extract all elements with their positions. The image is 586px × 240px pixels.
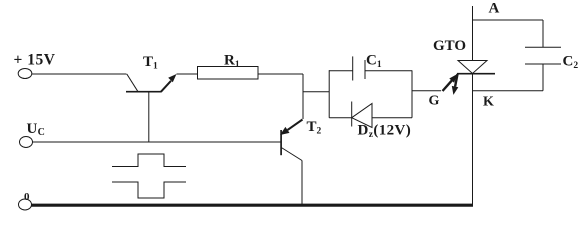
svg-text:K: K bbox=[483, 95, 494, 110]
svg-text:GTO: GTO bbox=[433, 38, 466, 54]
svg-text:C2: C2 bbox=[563, 54, 579, 72]
svg-text:R1: R1 bbox=[224, 53, 240, 71]
svg-text:0: 0 bbox=[24, 191, 30, 203]
svg-text:G: G bbox=[429, 94, 440, 109]
svg-text:+ 15V: + 15V bbox=[14, 51, 56, 68]
svg-text:C1: C1 bbox=[366, 53, 382, 71]
svg-text:UC: UC bbox=[27, 121, 45, 138]
svg-text:A: A bbox=[489, 1, 500, 17]
svg-text:T1: T1 bbox=[143, 54, 158, 72]
svg-text:Dz(12V): Dz(12V) bbox=[358, 123, 412, 141]
svg-text:T2: T2 bbox=[307, 119, 322, 137]
